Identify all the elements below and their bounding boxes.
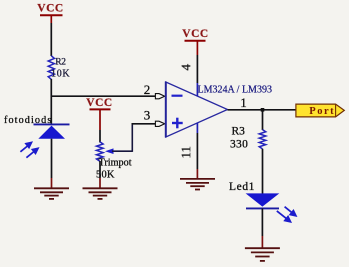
photodiode triangle	[38, 126, 65, 139]
svg-text:330: 330	[230, 139, 248, 151]
wire pin 11 to ground	[196, 133, 198, 169]
svg-text:R3: R3	[232, 126, 246, 138]
pin 2 arrow glyph	[155, 94, 164, 99]
wire photodiode to ground	[51, 139, 53, 178]
LED cathode bar	[246, 207, 279, 209]
trimpot wiper arrow	[105, 124, 132, 154]
pin 11 stub	[196, 123, 198, 134]
svg-text:2: 2	[144, 82, 151, 97]
power symbol VCC (left, for R2)	[37, 2, 63, 23]
resistor R2	[48, 56, 54, 80]
svg-text:3: 3	[144, 108, 151, 123]
power symbol VCC (middle, for trimpot)	[86, 97, 112, 130]
LED light arrow upper	[285, 207, 296, 216]
wire junction down to R3	[262, 110, 264, 130]
pin 3 arrow glyph	[155, 121, 164, 126]
pin 4 stub	[196, 83, 198, 97]
svg-text:4: 4	[178, 64, 193, 71]
LED Led1 triangle	[246, 193, 280, 206]
LED light arrow lower	[277, 211, 291, 222]
wire node to op-amp pin 2	[51, 95, 156, 97]
ground (trimpot)	[83, 188, 118, 199]
svg-text:VCC: VCC	[37, 2, 63, 14]
ground (LED)	[245, 248, 280, 261]
svg-text:10K: 10K	[51, 68, 70, 79]
resistor R3	[259, 130, 266, 149]
wire R3 to LED	[262, 149, 264, 194]
svg-text:VCC: VCC	[86, 97, 112, 109]
port Port	[296, 104, 344, 117]
svg-text:LM324A / LM393: LM324A / LM393	[198, 84, 272, 95]
wire VCC to pin 4	[196, 55, 198, 83]
power symbol VCC (op-amp pin 4)	[182, 28, 208, 55]
wire R2 down to photodiode	[50, 79, 52, 125]
op-amp minus sign	[172, 95, 183, 97]
op-amp plus sign	[172, 118, 183, 129]
wire VCC to trimpot	[99, 130, 101, 143]
wire LED to ground	[261, 208, 263, 236]
ground (op-amp pin 11)	[180, 179, 215, 190]
op-amp U1 triangle	[166, 82, 228, 137]
svg-text:50K: 50K	[96, 170, 115, 181]
ground (photodiode)	[34, 188, 69, 199]
svg-text:Trimpot: Trimpot	[99, 158, 132, 169]
wire wiper to op-amp pin 3	[132, 123, 156, 125]
photodiode light arrow upper	[20, 143, 31, 152]
trimpot resistor body	[97, 142, 104, 161]
svg-text:11: 11	[178, 146, 193, 159]
svg-text:R2: R2	[55, 58, 66, 68]
wire op-amp output to port	[228, 109, 297, 111]
svg-text:Led1: Led1	[229, 181, 255, 193]
svg-text:Port: Port	[309, 106, 335, 117]
photodiode light arrow lower	[26, 148, 38, 157]
wire VCC to R2	[50, 23, 52, 56]
wire trimpot to ground	[99, 161, 101, 178]
svg-text:1: 1	[240, 95, 247, 110]
junction node (output / R3)	[261, 108, 265, 112]
photodiode cathode bar	[34, 123, 70, 125]
svg-text:VCC: VCC	[182, 28, 208, 40]
